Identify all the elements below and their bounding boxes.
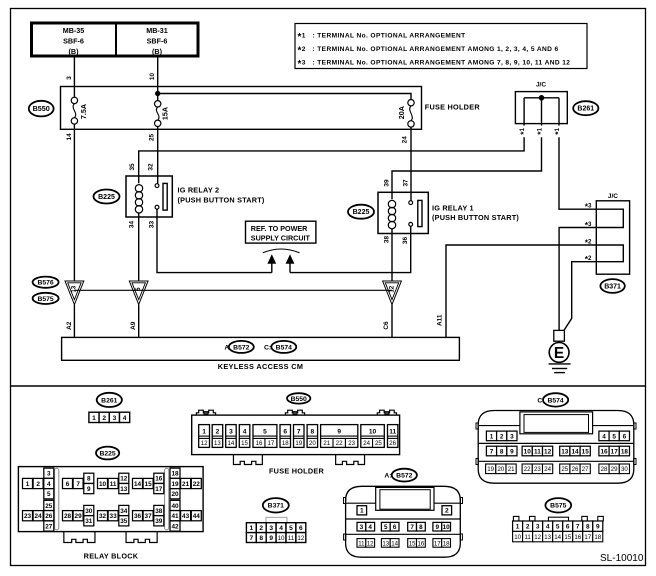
svg-text:20: 20: [498, 466, 505, 473]
svg-text:11: 11: [110, 481, 117, 488]
wire B371 *2 to ground: [564, 262, 597, 331]
svg-text:12: 12: [544, 448, 552, 455]
svg-text:37: 37: [403, 179, 410, 187]
svg-text:31: 31: [85, 518, 93, 525]
relay 2 coil: [135, 185, 142, 213]
svg-text:3: 3: [66, 76, 73, 80]
svg-text:8: 8: [311, 429, 315, 436]
svg-text:(B): (B): [152, 47, 163, 56]
svg-text:B225: B225: [99, 450, 115, 457]
legend note box: [295, 24, 587, 69]
svg-text:27: 27: [45, 523, 53, 530]
svg-text:12: 12: [367, 540, 374, 547]
svg-text:32: 32: [99, 513, 107, 520]
svg-text:E: E: [554, 345, 564, 362]
svg-text:10: 10: [369, 429, 377, 436]
wire connector 13 to CM pin A2: [73, 305, 75, 338]
svg-text:3: 3: [536, 524, 540, 531]
fuse 7.5A: [71, 97, 77, 124]
svg-text:18: 18: [171, 471, 179, 478]
fuse holder box B550: [61, 87, 422, 130]
svg-text:4: 4: [47, 481, 51, 488]
wire B371 *3 to ground: [559, 228, 596, 331]
svg-text:35: 35: [129, 163, 136, 171]
junction node in B261: [539, 96, 544, 101]
svg-text:6: 6: [566, 524, 570, 531]
svg-text:13: 13: [120, 486, 128, 493]
svg-text:1: 1: [360, 508, 364, 515]
IG relay 1 box B225: [378, 192, 428, 233]
svg-text:25: 25: [375, 440, 382, 447]
svg-text:18: 18: [443, 540, 450, 547]
svg-text:7: 7: [250, 535, 254, 542]
power supply arc: [263, 249, 300, 253]
svg-text:36: 36: [402, 237, 409, 245]
svg-text:29: 29: [75, 513, 83, 520]
svg-text:4: 4: [546, 524, 550, 531]
REF. TO POWER SUPPLY CIRCUIT box: [246, 221, 316, 243]
svg-text:6: 6: [623, 433, 627, 440]
svg-text:16: 16: [256, 440, 263, 447]
svg-text:B575: B575: [550, 503, 566, 510]
svg-text:13: 13: [544, 534, 551, 541]
svg-text:12: 12: [534, 534, 541, 541]
svg-text:SUPPLY CIRCUIT: SUPPLY CIRCUIT: [251, 234, 311, 243]
svg-text:35: 35: [120, 518, 128, 525]
svg-text:7: 7: [76, 481, 80, 488]
svg-text:B575: B575: [37, 296, 53, 303]
svg-text:6: 6: [393, 524, 397, 531]
svg-text:16: 16: [574, 534, 581, 541]
relay 2 contact: [155, 183, 167, 210]
svg-text:15: 15: [582, 448, 590, 455]
svg-text:2: 2: [102, 415, 106, 422]
connector B371 pinout: [246, 498, 305, 542]
svg-text:24: 24: [544, 466, 551, 473]
svg-text:13: 13: [561, 448, 569, 455]
svg-text:43: 43: [182, 513, 190, 520]
svg-text:41: 41: [171, 513, 179, 520]
svg-text:22: 22: [524, 466, 531, 473]
svg-text:SBF-6: SBF-6: [63, 37, 84, 46]
svg-text:B574: B574: [276, 344, 292, 351]
svg-text:16: 16: [600, 448, 608, 455]
svg-text:36: 36: [134, 513, 142, 520]
svg-text:1: 1: [92, 415, 96, 422]
svg-text:38: 38: [384, 236, 391, 244]
CM connector label C: B574: [264, 341, 296, 353]
svg-text:1: 1: [26, 481, 30, 488]
svg-text:3: 3: [47, 471, 51, 478]
svg-text:9: 9: [337, 429, 341, 436]
svg-text:(B): (B): [69, 47, 80, 56]
svg-text:20: 20: [171, 491, 179, 498]
svg-text:34: 34: [129, 221, 136, 229]
svg-text:1: 1: [490, 433, 494, 440]
connector label B261: [573, 101, 598, 115]
svg-text:3: 3: [360, 524, 364, 531]
svg-text:14: 14: [571, 448, 579, 455]
svg-text:26: 26: [45, 513, 53, 520]
svg-text:9: 9: [269, 535, 273, 542]
wire MB-31 to fuse holder pin 10: [157, 56, 159, 101]
svg-text:B572: B572: [396, 473, 412, 480]
svg-text:15: 15: [409, 540, 416, 547]
svg-text:8: 8: [87, 476, 91, 483]
svg-text:19: 19: [295, 440, 302, 447]
svg-text:25: 25: [149, 134, 156, 142]
svg-text:17: 17: [268, 440, 275, 447]
svg-text:8: 8: [259, 535, 263, 542]
svg-text:4: 4: [123, 415, 127, 422]
svg-text:3: 3: [269, 525, 273, 532]
junction node at 15A fuse input: [156, 91, 160, 95]
svg-text:14: 14: [391, 540, 398, 547]
svg-text:B225: B225: [353, 209, 370, 216]
svg-text:11: 11: [288, 535, 295, 542]
IG RELAY 1 title: [432, 203, 519, 222]
keyless access CM box: [62, 337, 460, 360]
fusible link MB-31 SBF-6 (B) label: [146, 26, 168, 56]
svg-text:20: 20: [309, 440, 316, 447]
svg-text:B574: B574: [547, 397, 563, 404]
svg-text:7: 7: [297, 429, 301, 436]
fusible link MB-35 SBF-6 (B) label: [63, 26, 85, 56]
svg-text:1: 1: [516, 524, 520, 531]
svg-text:4: 4: [602, 433, 606, 440]
wire CM pin A11 to J/C B371 *2: [446, 245, 596, 337]
svg-text:2: 2: [526, 524, 530, 531]
connector B261 pinout: [89, 393, 130, 423]
svg-text:28: 28: [64, 513, 72, 520]
svg-text:REF. TO POWER: REF. TO POWER: [251, 224, 308, 233]
svg-text:21: 21: [323, 440, 330, 447]
svg-text:4: 4: [279, 525, 283, 532]
svg-text:24: 24: [35, 513, 43, 520]
IG RELAY 2 title: [178, 186, 265, 205]
svg-text:14: 14: [554, 534, 561, 541]
svg-text:2: 2: [500, 433, 504, 440]
svg-text:18: 18: [621, 448, 629, 455]
inline connector 12: [383, 281, 402, 305]
svg-text:21: 21: [182, 481, 190, 488]
svg-text:7: 7: [490, 448, 494, 455]
svg-text:B371: B371: [604, 283, 621, 290]
svg-text:15A: 15A: [161, 107, 170, 120]
svg-text:3: 3: [113, 415, 117, 422]
svg-text:20A: 20A: [397, 106, 406, 119]
svg-text:8: 8: [586, 524, 590, 531]
svg-text:11: 11: [524, 534, 531, 541]
svg-text:10: 10: [99, 481, 107, 488]
svg-text:9: 9: [436, 524, 440, 531]
connector C: B574 pinout: [476, 393, 636, 483]
svg-text:2: 2: [216, 429, 220, 436]
inline connector 13: [65, 281, 84, 305]
svg-text:17: 17: [611, 448, 619, 455]
svg-text:12: 12: [201, 440, 208, 447]
svg-text:14: 14: [228, 440, 235, 447]
svg-text:24: 24: [402, 136, 409, 144]
svg-text:6: 6: [299, 525, 303, 532]
svg-text:3: 3: [229, 429, 233, 436]
svg-text:44: 44: [193, 513, 201, 520]
svg-text:A2: A2: [66, 321, 73, 330]
fusible link box MB-35 / MB-31: [32, 23, 199, 56]
junction connector B371 box: [596, 201, 629, 274]
svg-text:15: 15: [564, 534, 571, 541]
wire relay 2 pin 34 to connector 5: [138, 213, 140, 281]
svg-text:30: 30: [85, 508, 93, 515]
wire B261 *1 to IG relay 2 pin 35: [139, 137, 524, 183]
svg-text:2: 2: [259, 525, 263, 532]
svg-text:17: 17: [434, 540, 441, 547]
CM connector label A: B572: [224, 341, 253, 353]
svg-text:10: 10: [149, 73, 156, 81]
wire junction to 20A fuse: [158, 94, 411, 100]
svg-text:28: 28: [601, 466, 608, 473]
svg-text:B371: B371: [268, 503, 284, 510]
svg-text:12: 12: [120, 476, 128, 483]
svg-text:10: 10: [278, 535, 285, 542]
wire connector 12 to CM pin C6: [391, 305, 393, 338]
ground terminal block: [554, 330, 565, 341]
B261 internal bus bar: [524, 97, 559, 99]
svg-text:11: 11: [534, 448, 541, 455]
connector B225 pinout (relay block): [18, 447, 203, 543]
svg-text:A9: A9: [130, 321, 137, 330]
connector label B575 (schematic): [33, 293, 59, 304]
connector label B550: [29, 101, 54, 117]
svg-text:5: 5: [612, 433, 616, 440]
svg-text:A11: A11: [437, 314, 444, 326]
connector label B225 (relay 1): [348, 205, 374, 219]
svg-text:13: 13: [382, 540, 389, 547]
IG relay 2 box B225: [126, 176, 172, 217]
svg-text:14: 14: [134, 481, 142, 488]
svg-text:FUSE HOLDER: FUSE HOLDER: [425, 103, 481, 112]
svg-text:4: 4: [368, 524, 372, 531]
svg-text:16: 16: [155, 476, 163, 483]
svg-text:7: 7: [576, 524, 580, 531]
inline connector 5: [129, 281, 148, 305]
wire connector 5 to CM pin A9: [138, 305, 140, 338]
svg-text:14: 14: [66, 133, 73, 141]
B371 internal link *3: [596, 209, 623, 227]
svg-text:39: 39: [155, 518, 163, 525]
svg-text:33: 33: [110, 513, 118, 520]
svg-text:SL-10010: SL-10010: [600, 553, 644, 564]
svg-text:25: 25: [561, 466, 568, 473]
svg-text:4: 4: [243, 429, 247, 436]
svg-text:27: 27: [582, 466, 589, 473]
svg-text:5: 5: [289, 525, 293, 532]
svg-text:10: 10: [514, 534, 521, 541]
svg-text:(PUSH BUTTON START): (PUSH BUTTON START): [178, 195, 265, 204]
wire relay 2 pin 33 to power supply arrow: [157, 209, 272, 273]
svg-text:22: 22: [193, 481, 201, 488]
svg-text:19: 19: [171, 481, 179, 488]
svg-text:15: 15: [145, 481, 153, 488]
svg-text:B572: B572: [233, 344, 249, 351]
svg-text:29: 29: [611, 466, 618, 473]
svg-text:18: 18: [594, 534, 601, 541]
svg-text:23: 23: [24, 513, 32, 520]
ground hatching: [549, 364, 571, 373]
svg-text:IG RELAY 2: IG RELAY 2: [178, 186, 220, 195]
svg-text:1: 1: [202, 429, 206, 436]
svg-text:5: 5: [384, 524, 388, 531]
svg-text:24: 24: [363, 440, 370, 447]
svg-text:19: 19: [487, 466, 494, 473]
svg-text:8: 8: [419, 524, 423, 531]
svg-text:18: 18: [282, 440, 289, 447]
svg-text:B550: B550: [33, 104, 50, 113]
svg-text:13: 13: [71, 285, 78, 292]
svg-text:17: 17: [584, 534, 591, 541]
svg-text:SBF-6: SBF-6: [147, 37, 168, 46]
connector label B371 (schematic): [600, 279, 624, 293]
connector label B576: [33, 277, 59, 288]
svg-text:5: 5: [47, 491, 51, 498]
relay 1 coil: [388, 200, 395, 228]
svg-text:26: 26: [389, 440, 396, 447]
svg-text:7: 7: [410, 524, 414, 531]
svg-text:B576: B576: [37, 280, 53, 287]
svg-text:30: 30: [621, 466, 628, 473]
wire fuse 25 to relay 2 pin 32: [157, 127, 159, 184]
fuse 15A: [155, 101, 161, 127]
wire fuse 24 to relay 1 pin 37: [410, 127, 412, 201]
svg-text:(PUSH BUTTON START): (PUSH BUTTON START): [432, 213, 519, 222]
svg-text:5: 5: [263, 429, 267, 436]
connector bus wire: [74, 289, 392, 291]
svg-text:B261: B261: [577, 106, 594, 113]
svg-text:23: 23: [534, 466, 541, 473]
svg-text:IG RELAY 1: IG RELAY 1: [432, 203, 474, 212]
svg-text:2: 2: [445, 508, 449, 515]
junction connector B261 box: [515, 92, 567, 124]
svg-text:11: 11: [389, 429, 396, 436]
wire MB-35 to fuse holder pin 3: [73, 56, 75, 97]
svg-text:B550: B550: [291, 396, 307, 403]
svg-text:40: 40: [171, 503, 179, 510]
svg-text:26: 26: [572, 466, 579, 473]
svg-text:16: 16: [418, 540, 425, 547]
svg-text:J/C: J/C: [608, 193, 618, 200]
svg-text:1: 1: [250, 525, 254, 532]
svg-text:37: 37: [145, 513, 153, 520]
svg-text:FUSE HOLDER: FUSE HOLDER: [269, 466, 325, 475]
svg-text:MB-35: MB-35: [63, 26, 85, 35]
svg-text:C:: C:: [264, 345, 271, 352]
svg-text:7.5A: 7.5A: [79, 104, 88, 119]
svg-text:6: 6: [283, 429, 287, 436]
svg-text:B261: B261: [101, 397, 117, 404]
svg-text:25: 25: [45, 503, 53, 510]
ground E symbol: [549, 341, 569, 362]
wire fuse 14 to connector 13: [73, 124, 75, 281]
svg-text:C6: C6: [383, 321, 390, 330]
svg-text:11: 11: [358, 540, 365, 547]
power supply arrow right: [286, 254, 295, 272]
svg-text:33: 33: [148, 221, 155, 229]
svg-text:6: 6: [66, 481, 70, 488]
wire relay 1 pin 38 to connector 12: [391, 229, 393, 281]
svg-text:8: 8: [500, 448, 504, 455]
svg-text:KEYLESS ACCESS CM: KEYLESS ACCESS CM: [218, 362, 304, 371]
connector B550 pinout (fuse holder): [192, 393, 400, 464]
wire B261 *1 to J/C B371 *3: [559, 137, 596, 209]
svg-text:32: 32: [148, 163, 155, 171]
svg-text:22: 22: [336, 440, 343, 447]
B261 branch wires: [524, 98, 559, 126]
svg-text:B225: B225: [98, 194, 115, 201]
B371 internal link *2: [596, 245, 623, 262]
svg-text:A:: A:: [384, 473, 391, 480]
power supply arrow left: [267, 254, 276, 272]
svg-text:5: 5: [135, 287, 142, 291]
svg-text:10: 10: [443, 524, 451, 531]
svg-text:RELAY BLOCK: RELAY BLOCK: [84, 552, 139, 561]
svg-text:10: 10: [524, 448, 532, 455]
svg-text:23: 23: [348, 440, 355, 447]
svg-text:MB-31: MB-31: [146, 26, 168, 35]
svg-text:13: 13: [214, 440, 221, 447]
svg-text:39: 39: [384, 179, 391, 187]
svg-text:21: 21: [508, 466, 515, 473]
svg-text:5: 5: [556, 524, 560, 531]
svg-text:9: 9: [596, 524, 600, 531]
wire B261 *1 to IG relay 1 pin 39: [392, 137, 542, 199]
svg-text:17: 17: [155, 486, 163, 493]
connector label B225 (relay 2): [94, 190, 120, 204]
svg-text:J/C: J/C: [536, 81, 546, 88]
svg-text:9: 9: [87, 486, 91, 493]
connector A: B572 pinout: [344, 469, 463, 558]
fuse 20A: [408, 100, 414, 128]
svg-text:9: 9: [510, 448, 514, 455]
relay 1 contact: [409, 200, 422, 226]
svg-text:34: 34: [120, 508, 128, 515]
svg-text:3: 3: [510, 433, 514, 440]
wire relay 1 pin 36 to power supply arrow: [290, 226, 411, 272]
svg-text:2: 2: [36, 481, 40, 488]
svg-text:12: 12: [388, 285, 395, 292]
svg-text:15: 15: [241, 440, 248, 447]
svg-text:42: 42: [171, 523, 179, 530]
svg-text:12: 12: [297, 535, 304, 542]
connector B575 pinout: [513, 498, 604, 542]
svg-text:38: 38: [155, 508, 163, 515]
